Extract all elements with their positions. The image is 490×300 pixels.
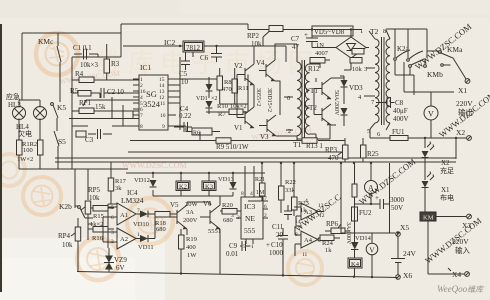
watermark stamp left [23, 177, 61, 215]
lamp HL3 [6, 92, 26, 140]
svg-text:R3: R3 [111, 60, 120, 68]
thyristor VT1 [305, 78, 331, 99]
svg-text:WeeQoo维库: WeeQoo维库 [437, 284, 485, 294]
voltmeter battery [366, 233, 378, 277]
wire bottom bus [77, 272, 398, 278]
svg-text:7: 7 [264, 196, 267, 202]
watermark stamp bottom-centre [288, 251, 322, 285]
svg-text:3055×2: 3055×2 [255, 88, 261, 106]
capacitor C9 [220, 229, 251, 274]
label R10 10kx2 [217, 103, 247, 110]
svg-text:4: 4 [305, 198, 308, 204]
svg-text:K3: K3 [205, 184, 213, 191]
svg-text:C8: C8 [395, 99, 404, 107]
IC3 NE555 [231, 166, 268, 250]
capacitor C4 [174, 105, 192, 132]
resistor R18 [155, 212, 177, 234]
watermark red diagonal urls right [293, 21, 490, 265]
svg-text:7: 7 [140, 113, 143, 119]
terminal X1 [458, 79, 470, 95]
diode VD4b [341, 108, 348, 126]
svg-text:VD13: VD13 [218, 176, 234, 183]
svg-text:K5: K5 [57, 103, 66, 112]
control box outline [72, 24, 121, 169]
svg-text:X6: X6 [403, 271, 412, 280]
terminal X4 [428, 268, 469, 279]
resistor R23 [292, 163, 309, 216]
svg-text:欠电: 欠电 [18, 129, 32, 138]
label 10k x3 [80, 61, 98, 69]
transistor V2 [234, 62, 254, 85]
svg-text:K2: K2 [179, 184, 187, 191]
diode VD1 [206, 77, 213, 98]
svg-text:R8: R8 [224, 79, 232, 86]
svg-text:X4: X4 [452, 270, 461, 279]
capacitor C3 [76, 129, 112, 144]
svg-text:V5: V5 [170, 201, 179, 209]
wire driver stage [206, 44, 297, 136]
svg-text:2: 2 [264, 213, 267, 219]
wire regulator rail [174, 57, 206, 130]
svg-text:X2: X2 [441, 159, 450, 167]
transistor V6 [187, 196, 221, 240]
svg-text:S5: S5 [58, 137, 66, 146]
transistor V4 [256, 59, 275, 81]
svg-text:布电: 布电 [440, 193, 454, 202]
diode VD2 [196, 96, 217, 114]
svg-text:VD12: VD12 [134, 177, 150, 184]
svg-text:R16: R16 [92, 235, 104, 242]
svg-text:5: 5 [243, 244, 246, 250]
wire opamp joins [75, 204, 155, 248]
potentiometer RP6 [325, 220, 350, 234]
svg-text:5: 5 [111, 205, 114, 211]
resistor R3 [104, 44, 120, 80]
relay contacts K2a [386, 29, 427, 95]
diode VD14 [351, 233, 372, 258]
svg-text:C9: C9 [229, 242, 238, 250]
svg-text:R15: R15 [93, 213, 104, 220]
svg-text:50V: 50V [391, 204, 403, 212]
svg-text:50A/200V: 50A/200V [333, 90, 339, 116]
svg-text:R12: R12 [308, 65, 320, 73]
capacitor C10 [266, 228, 288, 275]
svg-text:7: 7 [137, 208, 140, 214]
resistor R9 [130, 132, 345, 152]
zener VZ9 [104, 248, 127, 273]
svg-text:IC1: IC1 [140, 63, 152, 72]
resistor R13 [302, 138, 323, 150]
svg-text:C7: C7 [291, 35, 300, 43]
svg-text:10: 10 [160, 113, 166, 119]
resistor R6 [186, 126, 220, 137]
svg-text:KMc: KMc [38, 37, 54, 46]
wire relay outputs [404, 58, 434, 92]
IC U1 SG3524 [133, 75, 186, 130]
resistor bridge top [352, 49, 364, 55]
svg-text:200V: 200V [183, 217, 198, 224]
transformer T2 [358, 27, 390, 138]
svg-text:VD5~VD8: VD5~VD8 [314, 29, 345, 36]
svg-text:RP4: RP4 [58, 232, 71, 240]
svg-text:V3: V3 [260, 133, 269, 141]
svg-text:KMb: KMb [427, 70, 443, 79]
diode VD3 [340, 76, 363, 104]
svg-text:3: 3 [364, 66, 367, 73]
resistor R15 [90, 206, 114, 229]
svg-text:LM324: LM324 [121, 196, 144, 205]
svg-text:8: 8 [383, 28, 386, 35]
svg-text:R25: R25 [367, 150, 379, 158]
op-amp A4 [295, 226, 325, 258]
svg-text:RP2: RP2 [247, 32, 260, 40]
wire section bottom rail [19, 168, 128, 170]
svg-text:SG: SG [146, 89, 157, 99]
capacitor C11 [272, 205, 292, 239]
svg-text:KMa: KMa [447, 45, 463, 54]
svg-text:1W: 1W [187, 252, 197, 259]
label R1R2 100 1W [17, 141, 37, 163]
svg-text:6: 6 [264, 204, 267, 210]
battery 24V [391, 236, 417, 275]
svg-text:8: 8 [241, 191, 244, 197]
svg-text:X5: X5 [400, 223, 409, 232]
transistor V3 [259, 115, 276, 141]
svg-text:1: 1 [251, 244, 254, 250]
svg-text:1: 1 [360, 28, 363, 35]
svg-text:V: V [369, 246, 375, 255]
svg-text:C6: C6 [200, 54, 209, 62]
svg-text:C11: C11 [272, 223, 284, 231]
svg-text:C2 10: C2 10 [107, 88, 124, 96]
thyristor VT2 [304, 104, 331, 125]
svg-text:NE: NE [245, 214, 255, 223]
svg-text:3DD15×2: 3DD15×2 [266, 88, 272, 112]
svg-text:K4: K4 [351, 261, 360, 268]
wire left rail [21, 33, 23, 100]
diode VD13 [218, 176, 237, 189]
svg-text:3: 3 [231, 213, 234, 219]
svg-text:X2: X2 [456, 128, 465, 137]
diode VD10 [133, 211, 155, 229]
resistor R19 [179, 229, 198, 274]
svg-text:7812: 7812 [186, 44, 201, 52]
resistor R20 [220, 202, 241, 224]
resistor R5 [70, 87, 100, 96]
svg-text:0.01: 0.01 [226, 250, 239, 258]
regulator IC2 7812 [123, 38, 286, 64]
svg-text:1W×2: 1W×2 [17, 156, 33, 163]
svg-text:1k: 1k [325, 247, 332, 254]
watermark stamp bottom-left [77, 238, 119, 280]
op-amp A1 [111, 203, 140, 225]
svg-text:470: 470 [222, 86, 232, 93]
svg-text:X1: X1 [441, 186, 450, 194]
potentiometer RP3 [325, 138, 348, 162]
LED H2 [422, 142, 455, 181]
svg-text:VZ9: VZ9 [114, 256, 127, 264]
svg-text:1: 1 [137, 232, 140, 238]
svg-text:IC3: IC3 [244, 202, 256, 211]
svg-text:15k: 15k [95, 103, 106, 111]
svg-text:0.22: 0.22 [179, 112, 192, 120]
svg-text:V4: V4 [256, 59, 265, 67]
resistor R11 [232, 68, 249, 104]
svg-text:C10: C10 [271, 241, 283, 249]
svg-text:680: 680 [156, 226, 166, 233]
voltmeter output [424, 92, 454, 138]
terminal X2 [456, 128, 471, 140]
svg-text:4007: 4007 [315, 50, 329, 57]
label 3DD15x2 [266, 88, 272, 112]
svg-text:+: + [266, 241, 270, 249]
page edge border left [0, 24, 2, 292]
svg-text:10k: 10k [62, 241, 73, 249]
resistor R1 [17, 140, 23, 169]
svg-text:12: 12 [319, 213, 325, 219]
resistor R4 [72, 70, 139, 83]
relay KM [420, 192, 466, 274]
svg-text:3: 3 [111, 230, 114, 236]
svg-text:11: 11 [160, 101, 166, 107]
resistor R12 [308, 58, 330, 74]
svg-text:A: A [368, 184, 374, 193]
svg-text:KM: KM [423, 215, 434, 222]
svg-text:RP5: RP5 [88, 186, 101, 194]
svg-text:X1: X1 [458, 86, 467, 95]
label 50A/200V [333, 90, 339, 116]
svg-text:6V: 6V [116, 264, 125, 272]
wire lower feeders [75, 162, 265, 206]
svg-text:0: 0 [287, 95, 290, 102]
svg-text:VD10: VD10 [133, 221, 149, 228]
resistor R7 [206, 109, 248, 118]
wire battery line [341, 163, 395, 233]
capacitor C8 [376, 97, 409, 123]
watermark stamp centre [127, 198, 173, 244]
svg-text:11: 11 [302, 252, 308, 258]
label 220V output [456, 99, 473, 117]
capacitor C6 [200, 46, 222, 62]
svg-text:555: 555 [244, 226, 256, 235]
capacitor C2 [101, 88, 139, 98]
wire X2 to bus [425, 138, 456, 159]
svg-text:RP3: RP3 [325, 146, 338, 154]
wire top bus [22, 24, 362, 33]
svg-text:V6: V6 [203, 200, 212, 208]
transformer T1 [284, 44, 320, 149]
contactor KMa [427, 45, 466, 79]
IC4 label [121, 189, 144, 205]
svg-text:10k×3: 10k×3 [80, 61, 98, 69]
svg-text:R24: R24 [322, 240, 334, 247]
transistor V1 [234, 107, 254, 132]
transistor V5 [167, 201, 199, 229]
svg-text:V: V [428, 110, 434, 119]
fuse FU2 [352, 163, 372, 233]
svg-text:1000: 1000 [269, 249, 284, 257]
capacitor C1 [73, 44, 98, 60]
svg-text:A3: A3 [304, 209, 312, 216]
potentiometer RP4 [58, 218, 81, 272]
svg-text:R13 1: R13 1 [306, 142, 323, 150]
LED H1 [422, 172, 455, 213]
bridge rectifier [312, 30, 369, 71]
svg-text:24V: 24V [403, 249, 417, 258]
svg-text:X3: X3 [462, 221, 471, 230]
wire mid bus lower [55, 161, 456, 163]
label 220V input [452, 237, 470, 255]
contactor KMb [409, 29, 443, 79]
capacitor C5 [179, 52, 190, 86]
svg-text:220V: 220V [452, 237, 469, 246]
svg-text:RP6: RP6 [326, 220, 339, 228]
wire inverter right [297, 78, 344, 139]
svg-text:1M: 1M [256, 190, 265, 196]
svg-text:2: 2 [288, 128, 291, 135]
potentiometer RP1 [72, 99, 139, 114]
op-amp A3 [294, 198, 325, 226]
svg-text:VD1: VD1 [196, 96, 208, 102]
capacitor C7 [291, 30, 318, 52]
svg-text:220V: 220V [456, 99, 473, 108]
wire mid bus upper [55, 157, 456, 159]
svg-text:6: 6 [111, 215, 114, 221]
svg-text:充足: 充足 [440, 166, 454, 175]
relay coil K2 [176, 181, 190, 191]
watermark stamp top-left [36, 33, 78, 75]
svg-text:3000: 3000 [390, 196, 405, 204]
wire chip feeds [69, 93, 139, 126]
svg-text:100: 100 [23, 147, 33, 154]
relay coil K4 [348, 258, 362, 277]
svg-text:4: 4 [250, 191, 253, 197]
svg-text:R17: R17 [115, 178, 127, 185]
resistor R14 10k [350, 58, 367, 74]
switch K2b [59, 202, 93, 218]
svg-text:+: + [375, 194, 379, 202]
resistor R16 [88, 224, 114, 242]
diode VD11 [136, 235, 155, 251]
switch K5 [51, 100, 67, 131]
resistor R25 [361, 138, 380, 162]
op-amp IC1 label [140, 63, 152, 72]
svg-text:R6: R6 [193, 131, 200, 137]
svg-text:FU1: FU1 [392, 128, 405, 136]
svg-text:应急: 应急 [6, 92, 20, 101]
svg-text:R5: R5 [70, 87, 79, 95]
svg-text:×2: ×2 [211, 96, 217, 102]
lamp HL4 [16, 100, 47, 140]
resistor R21 [245, 163, 265, 201]
svg-text:10k: 10k [251, 40, 262, 48]
capacitor 3000/50V [375, 163, 405, 212]
contactor KMc [38, 33, 61, 100]
svg-text:R9 510/1W: R9 510/1W [216, 143, 249, 151]
svg-text:输出: 输出 [458, 107, 473, 117]
svg-text:5551: 5551 [208, 228, 221, 235]
ammeter A [354, 163, 380, 204]
resistor R17 [108, 178, 126, 204]
svg-text:13: 13 [318, 203, 324, 209]
resistor R2 [38, 140, 44, 169]
svg-text:VD11: VD11 [138, 244, 154, 251]
svg-text:R20: R20 [222, 202, 233, 209]
svg-text:9: 9 [162, 124, 165, 130]
svg-text:VD14: VD14 [355, 235, 372, 242]
svg-text:T1: T1 [293, 140, 302, 149]
svg-text:C1 0.1: C1 0.1 [73, 44, 92, 52]
svg-text:470: 470 [328, 154, 339, 162]
svg-text:R11: R11 [238, 85, 249, 92]
resistor R8 [217, 68, 232, 104]
svg-text:K2b: K2b [59, 202, 72, 211]
svg-text:3k: 3k [115, 185, 122, 192]
svg-text:输入: 输入 [455, 245, 470, 255]
svg-text:V1: V1 [234, 124, 243, 132]
label 3A100V [345, 222, 351, 245]
potentiometer RP5 [81, 186, 101, 224]
fuse FU1 [370, 128, 466, 141]
terminal X3 [462, 214, 471, 230]
switch S5 [54, 131, 66, 169]
svg-text:3A: 3A [186, 209, 194, 216]
svg-text:VD3: VD3 [349, 84, 363, 92]
svg-text:A1: A1 [120, 212, 128, 219]
svg-text:8: 8 [140, 124, 143, 130]
label box VD5-VD8 [312, 26, 353, 36]
svg-text:VT2: VT2 [304, 104, 317, 112]
svg-text:40μF: 40μF [393, 107, 408, 115]
svg-text:400: 400 [186, 244, 196, 251]
terminal X6 [396, 271, 413, 280]
resistor R24 [318, 235, 340, 254]
diode VD12 [134, 177, 157, 187]
relay coil K3 [202, 181, 216, 191]
resistor R22 [279, 163, 296, 213]
svg-text:A4: A4 [304, 237, 313, 244]
label 3055x2 [255, 88, 261, 106]
svg-text:A2: A2 [120, 236, 128, 243]
op-amp A2 [111, 228, 140, 249]
svg-text:400V: 400V [393, 115, 409, 123]
svg-text:V2: V2 [234, 62, 243, 70]
svg-text:R19: R19 [186, 236, 197, 243]
svg-text:R21: R21 [255, 177, 265, 183]
svg-text:47: 47 [292, 43, 300, 51]
svg-text:FU2: FU2 [359, 209, 372, 217]
potentiometer RP2 [247, 26, 283, 49]
terminal X5 [396, 223, 410, 236]
svg-text:10k: 10k [352, 66, 363, 73]
